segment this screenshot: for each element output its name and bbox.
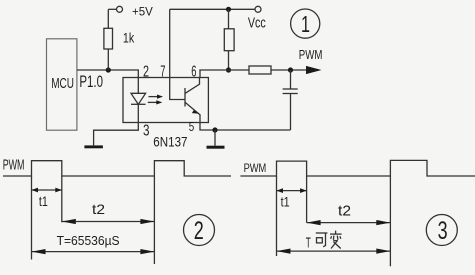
svg-text:t2: t2 xyxy=(92,201,105,217)
diagram 3: extension line t1 end xyxy=(306,176,308,223)
svg-text:2: 2 xyxy=(194,217,204,245)
diagram 2: PWM waveform trace xyxy=(3,161,231,176)
svg-text:P1.0: P1.0 xyxy=(79,73,103,91)
svg-text:PWM: PWM xyxy=(244,161,267,175)
resistor R2 xyxy=(228,9,230,29)
diagram 2: T dimension arrow xyxy=(32,251,155,253)
LED D1 inside optocoupler xyxy=(137,78,139,94)
svg-text:3: 3 xyxy=(438,217,448,245)
svg-text:5: 5 xyxy=(189,120,195,134)
diagram 3: extension line t=0 xyxy=(276,176,278,256)
ground (below optocoupler pin 3) xyxy=(84,145,103,148)
PWM output arrow xyxy=(306,66,322,74)
svg-text:Vcc: Vcc xyxy=(248,14,266,31)
svg-text:3: 3 xyxy=(143,123,150,140)
hanzi bian xyxy=(330,231,342,249)
circled number 1 xyxy=(291,9,320,38)
phototransistor collector xyxy=(185,78,200,94)
svg-text:T=65536µS: T=65536µS xyxy=(57,233,120,248)
svg-text:t2: t2 xyxy=(338,204,351,220)
Vcc rail wire xyxy=(170,8,255,10)
node P1.0 / R1 junction xyxy=(106,67,111,72)
phototransistor emitter xyxy=(185,102,200,122)
svg-text:MCU: MCU xyxy=(51,75,74,92)
svg-text:1: 1 xyxy=(301,11,310,37)
light emission arrow 1 xyxy=(149,96,159,98)
pin 5 wire to ground rail xyxy=(200,123,291,131)
resistor R3 xyxy=(249,66,271,74)
svg-text:T: T xyxy=(306,235,311,252)
svg-text:PWM: PWM xyxy=(299,48,323,62)
diagram 3: t2 dimension arrow xyxy=(307,222,391,224)
diagram 2: extension line t1 end xyxy=(61,176,63,222)
diagram 3: t1 dimension arrow xyxy=(277,190,307,192)
svg-text:2: 2 xyxy=(143,64,149,81)
pin 7 enable wire xyxy=(170,9,185,99)
svg-text:PWM: PWM xyxy=(3,156,25,173)
optocoupler U2 6N137 box xyxy=(123,78,208,123)
node R2 / output wire junction xyxy=(226,67,231,72)
svg-text:+5V: +5V xyxy=(132,4,153,18)
Vcc terminal xyxy=(255,6,261,12)
diagram 2: extension line t=0 xyxy=(31,176,33,260)
svg-text:1k: 1k xyxy=(123,31,134,46)
circled number 3 xyxy=(426,215,457,246)
diagram 2: t1 dimension arrow xyxy=(32,189,62,191)
svg-text:6: 6 xyxy=(191,64,196,81)
diagram 3: extension line period end xyxy=(389,176,391,266)
node rail / R2 junction xyxy=(226,7,231,12)
node ground junction xyxy=(212,127,217,132)
wire MCU P1.0 to optocoupler pin 2 xyxy=(77,70,138,78)
resistor R1 1k xyxy=(107,9,109,28)
node output / C1 junction xyxy=(288,67,293,72)
circled number 2 xyxy=(184,215,215,246)
diagram 3: T dimension arrow xyxy=(277,250,391,252)
pin 3 wire to ground xyxy=(94,123,139,146)
MCU U1 box xyxy=(47,39,77,130)
capacitor C1 xyxy=(290,70,292,89)
phototransistor Q1 base bar xyxy=(184,88,186,107)
svg-text:t1: t1 xyxy=(39,193,48,209)
+5V terminal xyxy=(108,8,116,10)
light emission arrow 2 xyxy=(148,101,158,103)
svg-text:6N137: 6N137 xyxy=(153,134,187,150)
svg-text:t1: t1 xyxy=(281,194,290,210)
diagram 3: PWM waveform trace xyxy=(240,160,475,176)
diagram 2: extension line period end xyxy=(153,176,155,264)
pin 6 wire to output xyxy=(200,70,249,78)
svg-text:7: 7 xyxy=(160,64,165,81)
hanzi ke xyxy=(316,233,328,247)
ground (right of optocoupler) xyxy=(214,130,216,146)
diagram 2: t2 dimension arrow xyxy=(62,221,155,223)
